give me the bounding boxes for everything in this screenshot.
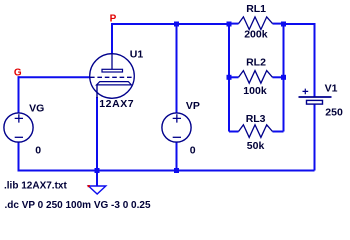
wire VG bottom lead [18,142,20,171]
VP minus sign [173,136,181,138]
junction VP top [174,22,179,27]
wire V1 bottom lead [314,104,316,171]
svg-text:RL1: RL1 [246,3,266,15]
svg-text:U1: U1 [130,48,144,60]
resistor RL3 zigzag [239,125,273,138]
U1 plate bar [102,69,123,72]
voltage source VG circle [4,113,33,142]
VP plus sign [173,114,181,122]
VG plus sign [15,114,23,122]
voltage source VP circle [162,113,191,142]
wire top P rail right of RL1 [284,23,315,25]
junction cathode/ground [95,168,100,173]
svg-text:0: 0 [35,145,41,157]
svg-text:12AX7: 12AX7 [99,98,134,110]
battery V1 top plate [299,96,332,98]
ground [89,186,106,194]
junction RL2 right [281,75,286,80]
U1 cathode [97,82,132,85]
wire RL1 left lead [229,23,239,25]
svg-text:G: G [14,68,22,79]
U1 grid dashed line [90,76,134,78]
junction RL2 left [227,75,232,80]
wire RL2 right lead [273,76,284,78]
wire grid horizontal from G [18,76,91,78]
svg-text:.lib 12AX7.txt: .lib 12AX7.txt [4,181,67,192]
battery V1 plus sign [303,89,309,95]
wire cathode lead [96,97,98,171]
svg-text:50k: 50k [247,140,265,152]
ground red port marker [88,185,90,187]
wire right ladder rail [283,24,285,132]
svg-text:200k: 200k [244,28,268,40]
wire ground stub [96,171,98,187]
wire VP bottom lead [176,142,178,171]
wire top P rail left of RL1 [111,23,229,25]
wire RL3 left lead [229,131,239,133]
svg-text:RL2: RL2 [246,57,266,69]
svg-text:VG: VG [29,103,44,115]
wire V1 top lead [314,23,316,97]
svg-text:100k: 100k [243,85,267,97]
svg-text:RL3: RL3 [246,113,266,125]
op-amp U1 triode envelope circle [90,54,135,99]
wire bottom ground rail [18,170,315,172]
junction right rail top [281,22,286,27]
wire plate lead upper [111,23,113,54]
wire RL1 right lead [273,23,284,25]
VG minus sign [15,136,23,138]
wire VP top lead [176,24,178,113]
junction VP bottom [174,168,179,173]
wire left ladder rail [228,24,230,132]
battery V1 body rect [307,100,323,104]
wire RL3 right lead [273,131,284,133]
wire RL2 left lead [229,76,239,78]
resistor RL2 zigzag [239,71,273,84]
svg-text:VP: VP [186,100,200,112]
U1 cathode lead inner [96,85,98,98]
wire G vertical to VG top [18,76,20,113]
junction left rail top [227,22,232,27]
U1 plate lead inner [111,54,113,69]
svg-text:.dc VP 0 250 100m VG -3 0 0.25: .dc VP 0 250 100m VG -3 0 0.25 [5,200,151,211]
svg-text:P: P [110,13,117,24]
resistor RL1 zigzag [239,17,273,30]
svg-text:0: 0 [190,145,196,157]
svg-text:250: 250 [325,107,343,119]
svg-text:V1: V1 [325,83,338,95]
